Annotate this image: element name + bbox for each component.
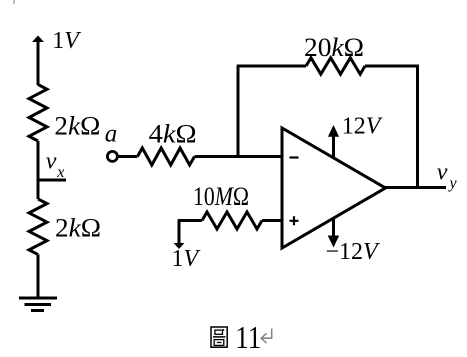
- stray gray mark top-left: [14, 0, 15, 4]
- +12V supply arrow: [332, 136, 335, 157]
- feedback left vertical wire: [237, 66, 240, 157]
- wire R5 to non-inverting input: [262, 219, 283, 222]
- wire to ground: [37, 255, 40, 298]
- svg-text:−12V: −12V: [326, 239, 381, 265]
- wire (vx segment): [37, 141, 40, 199]
- node a terminal circle: [107, 151, 117, 161]
- 1V source arrow (top left): [37, 41, 40, 85]
- svg-text:12V: 12V: [342, 114, 383, 140]
- svg-text:20kΩ: 20kΩ: [304, 33, 364, 62]
- resistor R1 2k (upper left, vertical): [29, 85, 47, 142]
- svg-text:11: 11: [235, 319, 261, 355]
- feedback top wire right: [365, 65, 419, 68]
- wire a to R3: [118, 155, 138, 158]
- svg-text:v: v: [46, 149, 57, 175]
- svg-text:v: v: [437, 160, 448, 186]
- svg-text:1V: 1V: [172, 246, 201, 272]
- svg-text:x: x: [56, 164, 64, 181]
- output wire: [386, 186, 447, 189]
- op-amp U1 triangle: [282, 128, 386, 248]
- 1V source arrow (lower, for 10M branch): [178, 221, 181, 244]
- svg-text:2kΩ: 2kΩ: [55, 213, 101, 242]
- wire R3 to inverting input: [195, 155, 284, 158]
- wire 1V to R5: [178, 219, 202, 222]
- feedback right vertical wire: [416, 65, 419, 188]
- plus sign (non-inverting input): [290, 216, 299, 225]
- caption glyph 圖 (drawn): [211, 327, 227, 347]
- feedback top wire left: [237, 65, 306, 68]
- svg-text:10MΩ: 10MΩ: [193, 182, 249, 211]
- svg-text:1V: 1V: [52, 28, 81, 54]
- node vx stub: [38, 179, 66, 182]
- resistor R4 20k (feedback, horizontal): [306, 58, 365, 74]
- minus sign (inverting input): [290, 156, 299, 158]
- -12V supply arrow: [332, 218, 335, 236]
- resistor R2 2k (lower left, vertical): [29, 199, 47, 255]
- svg-text:y: y: [448, 175, 458, 192]
- resistor R3 4k (horizontal): [138, 148, 195, 165]
- caption return mark (gray): [261, 329, 272, 344]
- ground: [19, 297, 57, 300]
- svg-text:2kΩ: 2kΩ: [54, 111, 100, 140]
- svg-text:4kΩ: 4kΩ: [149, 119, 197, 148]
- svg-text:a: a: [105, 121, 118, 148]
- resistor R5 10M (horizontal): [202, 212, 262, 229]
